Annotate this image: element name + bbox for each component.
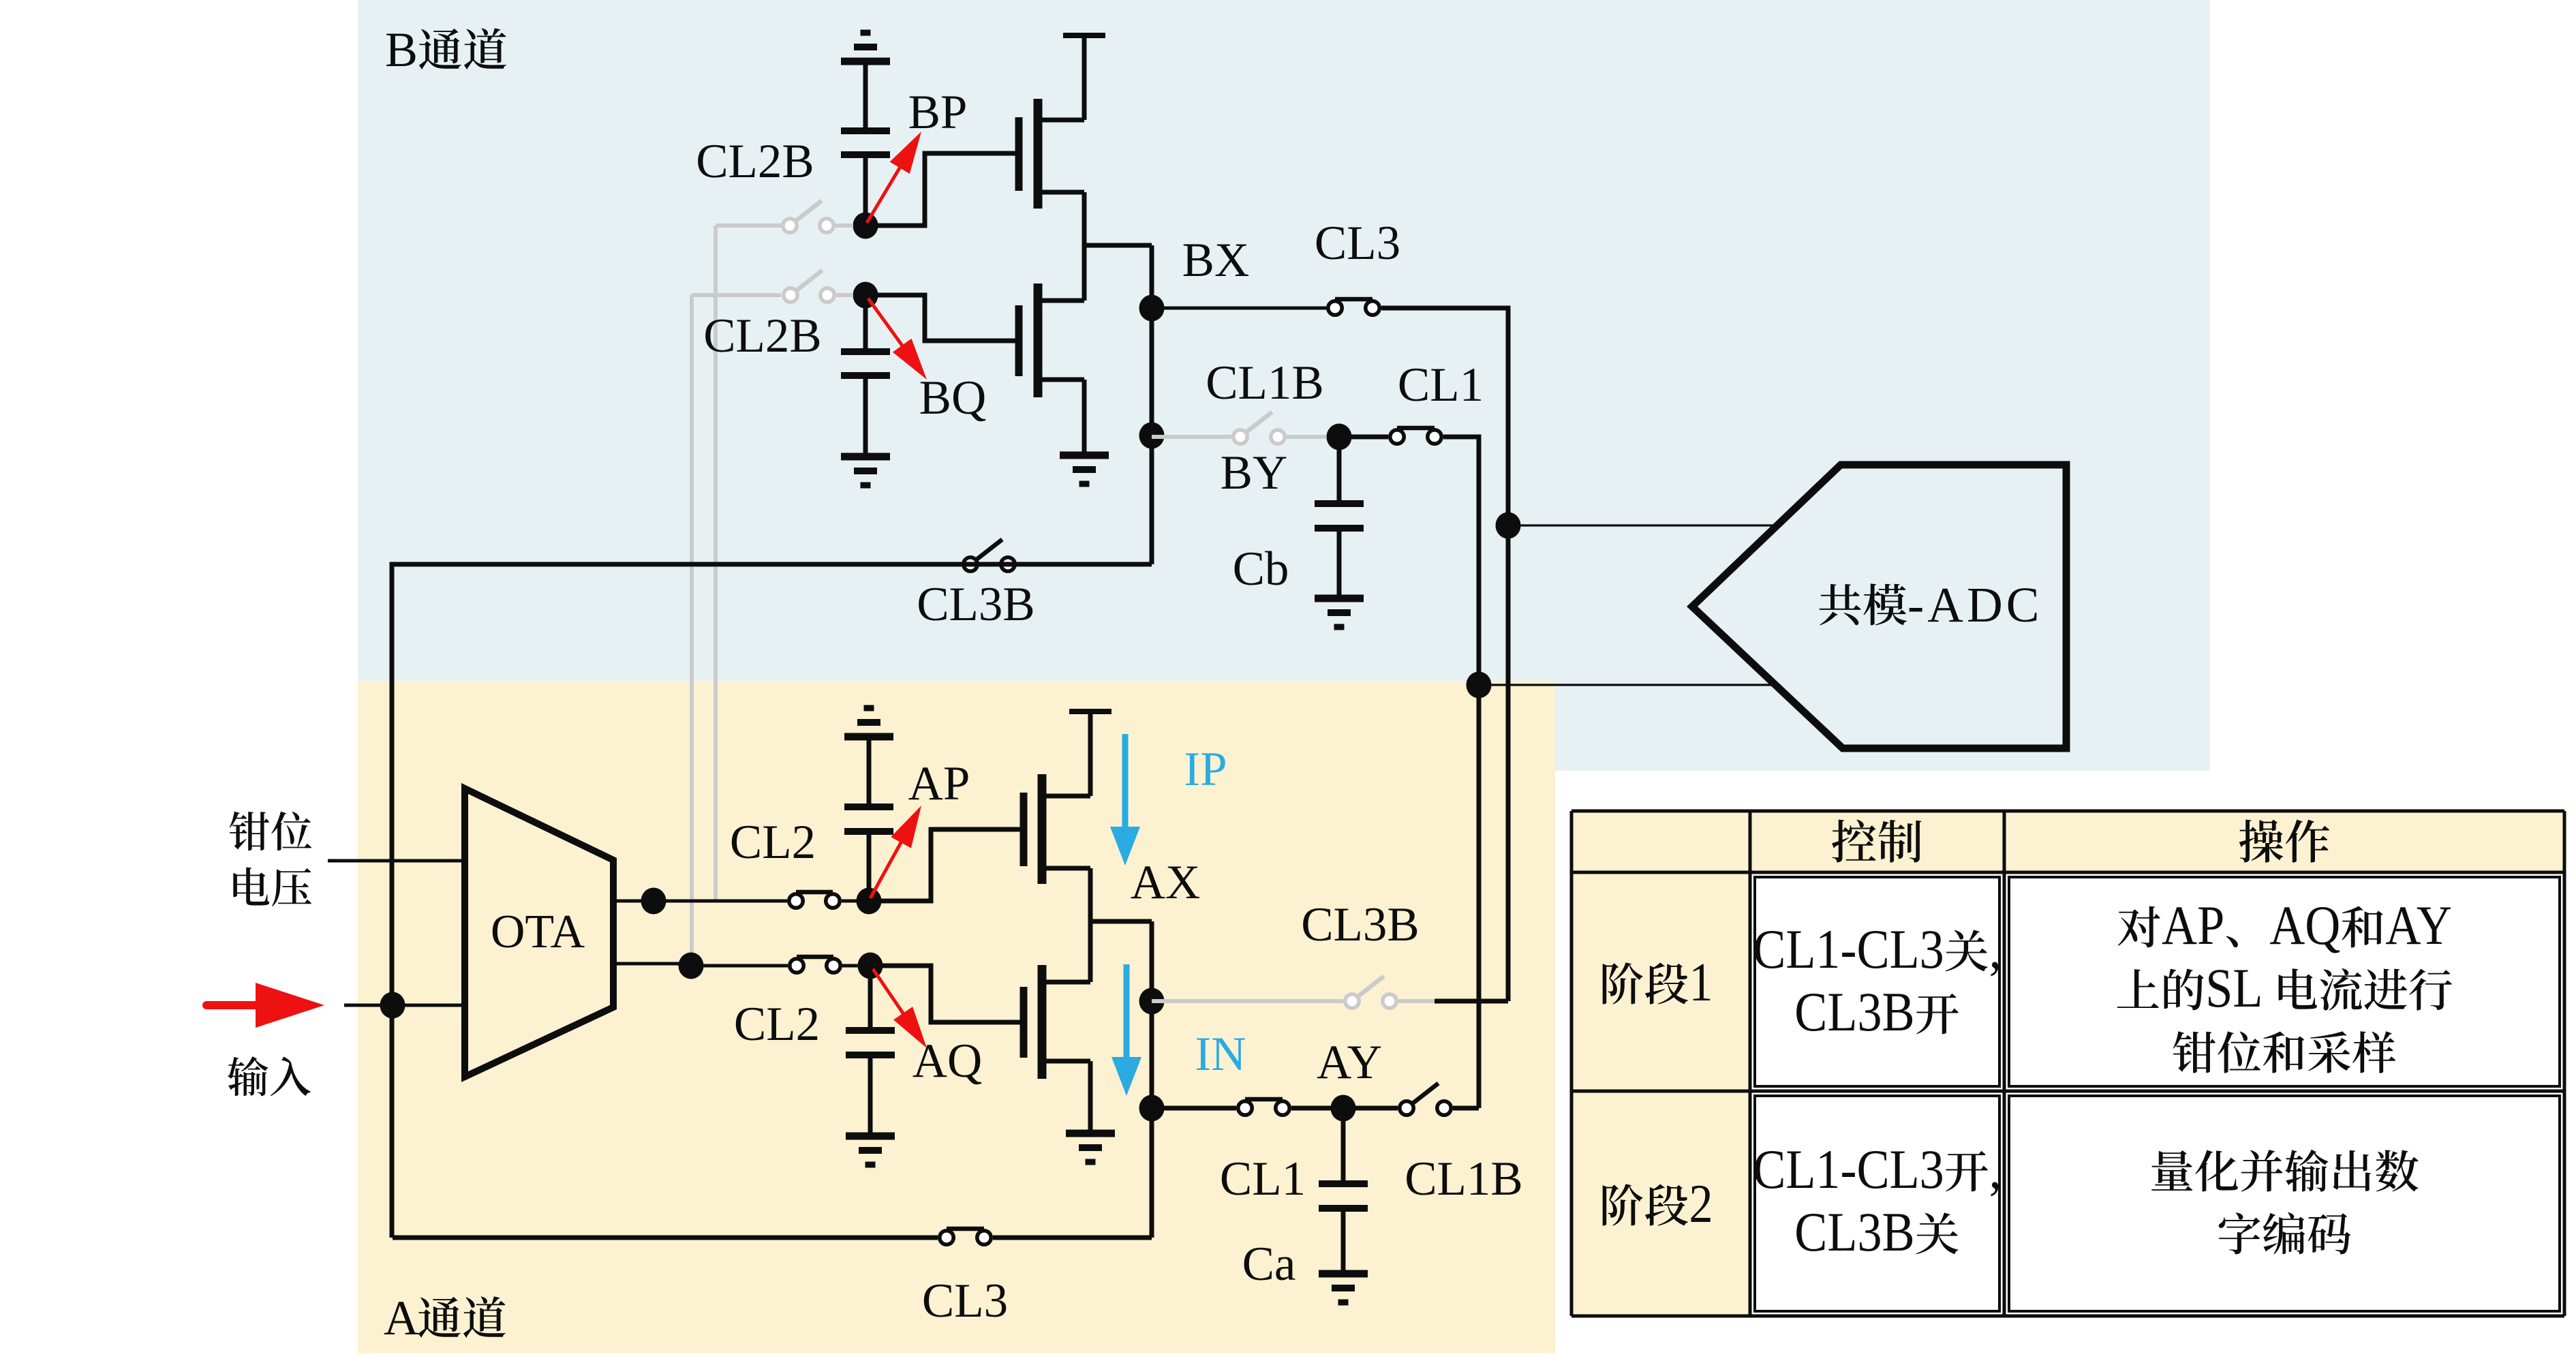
svg-text:BQ: BQ	[919, 371, 987, 425]
A channel background region	[358, 681, 1555, 1353]
svg-text:AQ: AQ	[913, 1035, 983, 1088]
label clamp voltage line2	[233, 868, 269, 906]
blue arrow IP	[1110, 734, 1140, 866]
label A channel	[384, 1291, 506, 1345]
BX vertical bus	[1150, 245, 1154, 564]
red arrow AP	[870, 806, 921, 898]
table header operation	[2239, 820, 2283, 863]
svg-text:,: ,	[1989, 1138, 2002, 1200]
label ADC	[1820, 577, 2043, 632]
ground below CL2B-Q	[841, 453, 890, 461]
node input on feedback vertical	[380, 992, 405, 1019]
wire CL3B to W2	[1435, 999, 1508, 1004]
switch CL1B (A channel, open)	[1343, 1084, 1479, 1116]
svg-text:CL2B: CL2B	[696, 135, 814, 188]
red input arrow	[206, 983, 324, 1028]
gray switch CL2B upper	[716, 201, 853, 233]
node AY	[1331, 1095, 1356, 1122]
common-mode ADC block	[1692, 465, 2066, 748]
svg-text:CL2: CL2	[734, 998, 820, 1051]
B channel background region	[358, 0, 2210, 771]
table row phase1 label	[1603, 962, 1643, 1004]
svg-text:CL1: CL1	[1220, 1152, 1306, 1206]
svg-text:1: 1	[1689, 953, 1713, 1013]
supply symbol above capacitor AP	[844, 708, 893, 807]
svg-text:CL3B: CL3B	[917, 578, 1035, 631]
svg-text:,: ,	[1989, 918, 2002, 980]
switch CL1 (A channel, closed)	[1245, 1097, 1283, 1102]
wire M1 to BX vertical	[1084, 243, 1152, 248]
svg-text:CL3B: CL3B	[1301, 898, 1420, 951]
wire CL1 to AY node	[1291, 1106, 1343, 1111]
wire CL2 lower to AQ node	[842, 964, 869, 968]
thin wire to ADC upper input	[1508, 524, 1777, 526]
switch CL1 (B channel, closed)	[1339, 428, 1441, 444]
switch CL3B (B channel, open)	[977, 540, 1002, 560]
OTA lower output wire	[613, 962, 681, 966]
wire CL3 bottom to AX bus	[993, 1236, 1152, 1240]
svg-text:Ca: Ca	[1242, 1238, 1296, 1291]
node on BX bus at BY row	[1139, 423, 1165, 449]
switch CL2 upper (closed)	[796, 890, 833, 895]
AX vertical bus	[1150, 921, 1154, 1238]
capacitor CL2-P (AP)	[844, 807, 893, 901]
blue arrow IN	[1111, 964, 1141, 1096]
clamp voltage wire into OTA	[328, 859, 465, 863]
wire node to CL2 lower	[691, 964, 788, 968]
node BP	[853, 213, 878, 239]
table row phase2 label	[1603, 1184, 1643, 1225]
svg-text:CL3: CL3	[1315, 217, 1400, 270]
svg-text:SL: SL	[2205, 957, 2263, 1019]
supply symbol above capacitor BP	[841, 33, 890, 131]
svg-text:BY: BY	[1221, 446, 1288, 500]
node on lower output	[679, 953, 704, 979]
red arrow BP	[867, 132, 921, 223]
VDD bar above M3	[1069, 709, 1111, 714]
table row phase2 control	[1753, 1138, 2002, 1263]
switch CL3 (A channel bottom, closed)	[947, 1227, 984, 1231]
svg-text:IN: IN	[1195, 1028, 1246, 1081]
node feeding ADC lower input	[1467, 672, 1492, 699]
wire BP node to gate of transistor M1	[865, 153, 1017, 226]
node AP	[857, 888, 882, 915]
ground below AQ capacitor	[846, 1133, 895, 1140]
svg-text:AY: AY	[2385, 894, 2452, 956]
svg-text:BP: BP	[908, 86, 968, 139]
svg-text:AQ: AQ	[2269, 894, 2340, 956]
red arrow BQ	[868, 298, 927, 380]
node feeding ADC upper input	[1496, 512, 1521, 539]
wire AQ node to gate of transistor M4	[870, 966, 1022, 1022]
VDD bar above M1	[1063, 33, 1105, 38]
svg-text:CL3B: CL3B	[1794, 981, 1914, 1043]
wire AP node to gate of transistor M3	[869, 829, 1022, 901]
ground below M2	[1060, 452, 1109, 459]
gray switch CL2B lower	[692, 271, 853, 303]
capacitor Cb	[1315, 437, 1364, 598]
bottom feedback wire with CL3 switch	[393, 1236, 938, 1240]
node BY	[1327, 424, 1352, 450]
svg-text:CL1: CL1	[1398, 358, 1484, 412]
svg-text:A: A	[384, 1291, 419, 1345]
svg-text:CL3: CL3	[922, 1274, 1008, 1328]
node on upper output	[641, 888, 666, 915]
wire CL2 to AP node	[842, 900, 865, 903]
capacitor CL2B-P (upper)	[841, 131, 890, 226]
svg-text:AP: AP	[2162, 894, 2224, 956]
svg-text:BX: BX	[1182, 234, 1250, 287]
svg-text:AP: AP	[908, 757, 970, 810]
ground below M4	[1066, 1130, 1115, 1137]
switch CL3 (B channel, closed)	[1335, 297, 1373, 302]
table row phase2 operation	[2151, 1150, 2419, 1255]
svg-text:CL2B: CL2B	[703, 309, 822, 363]
transistor M1 (PMOS upper, B channel)	[1019, 38, 1084, 245]
svg-text:CL1-CL3: CL1-CL3	[1753, 918, 1944, 980]
wire M3 to AX vertical	[1090, 919, 1152, 924]
input wire into OTA	[344, 1004, 465, 1007]
capacitor CL2-Q (AQ)	[846, 966, 895, 1134]
transistor M3 (PMOS upper, A channel)	[1024, 714, 1090, 921]
transistor M4 (NMOS lower, A channel)	[1024, 921, 1090, 1131]
svg-text:Cb: Cb	[1233, 542, 1289, 596]
table row phase1 operation	[2117, 894, 2452, 1073]
label clamp voltage line1	[230, 812, 269, 851]
gray switch CL1B (B channel)	[1152, 412, 1326, 444]
svg-text:CL1-CL3: CL1-CL3	[1753, 1138, 1944, 1200]
capacitor Ca	[1319, 1108, 1368, 1274]
node on AX bus at CL3B row	[1139, 988, 1165, 1015]
wire CL3 to W2 corner	[1381, 308, 1508, 1001]
red arrow AQ	[873, 969, 927, 1048]
label B channel	[385, 22, 506, 77]
svg-text:-ADC: -ADC	[1907, 577, 2042, 632]
gray wire from CL2B lower down to OTA lower output	[690, 295, 694, 966]
table row phase1 control	[1753, 918, 2002, 1043]
svg-text:CL1B: CL1B	[1405, 1152, 1523, 1206]
wire CL1 to W1 corner	[1443, 437, 1479, 1108]
feedback wire left and down to bottom CL3 wire	[392, 564, 1017, 1238]
wire AX to CL1 switch	[1152, 1106, 1236, 1111]
svg-text:CL1B: CL1B	[1206, 356, 1324, 410]
svg-text:2: 2	[1689, 1174, 1713, 1234]
node BX	[1139, 295, 1165, 322]
label input	[228, 1056, 268, 1096]
CL3B feedback wire (B channel)	[962, 562, 1152, 567]
gray wire from CL2B upper down to OTA upper output	[714, 226, 718, 901]
table header control	[1832, 820, 1875, 863]
svg-text:CL3B: CL3B	[1794, 1201, 1914, 1263]
svg-text:AX: AX	[1131, 856, 1201, 909]
OTA upper output wire	[613, 900, 787, 903]
svg-text:AY: AY	[1317, 1036, 1382, 1089]
wire BQ node to gate of transistor M2	[865, 295, 1017, 341]
phase table	[1571, 811, 2564, 1316]
node AQ	[858, 953, 883, 979]
ground below Cb	[1315, 595, 1364, 602]
node BQ	[853, 282, 878, 309]
svg-text:OTA: OTA	[491, 906, 585, 958]
thin wire to ADC lower input	[1479, 684, 1775, 686]
svg-text:CL2: CL2	[730, 816, 816, 869]
svg-text:B: B	[385, 22, 418, 77]
ground below Ca	[1319, 1270, 1368, 1278]
switch CL2 lower (closed)	[797, 955, 833, 960]
transistor M2 (NMOS lower, B channel)	[1019, 245, 1084, 453]
node on AX bus at AY row	[1139, 1095, 1165, 1122]
svg-text:IP: IP	[1184, 743, 1227, 796]
capacitor CL2B-Q (lower)	[841, 295, 890, 455]
wire BX to CL3 switch	[1152, 307, 1326, 310]
OTA amplifier	[465, 788, 613, 1077]
gray switch CL3B (A channel)	[1152, 977, 1435, 1009]
